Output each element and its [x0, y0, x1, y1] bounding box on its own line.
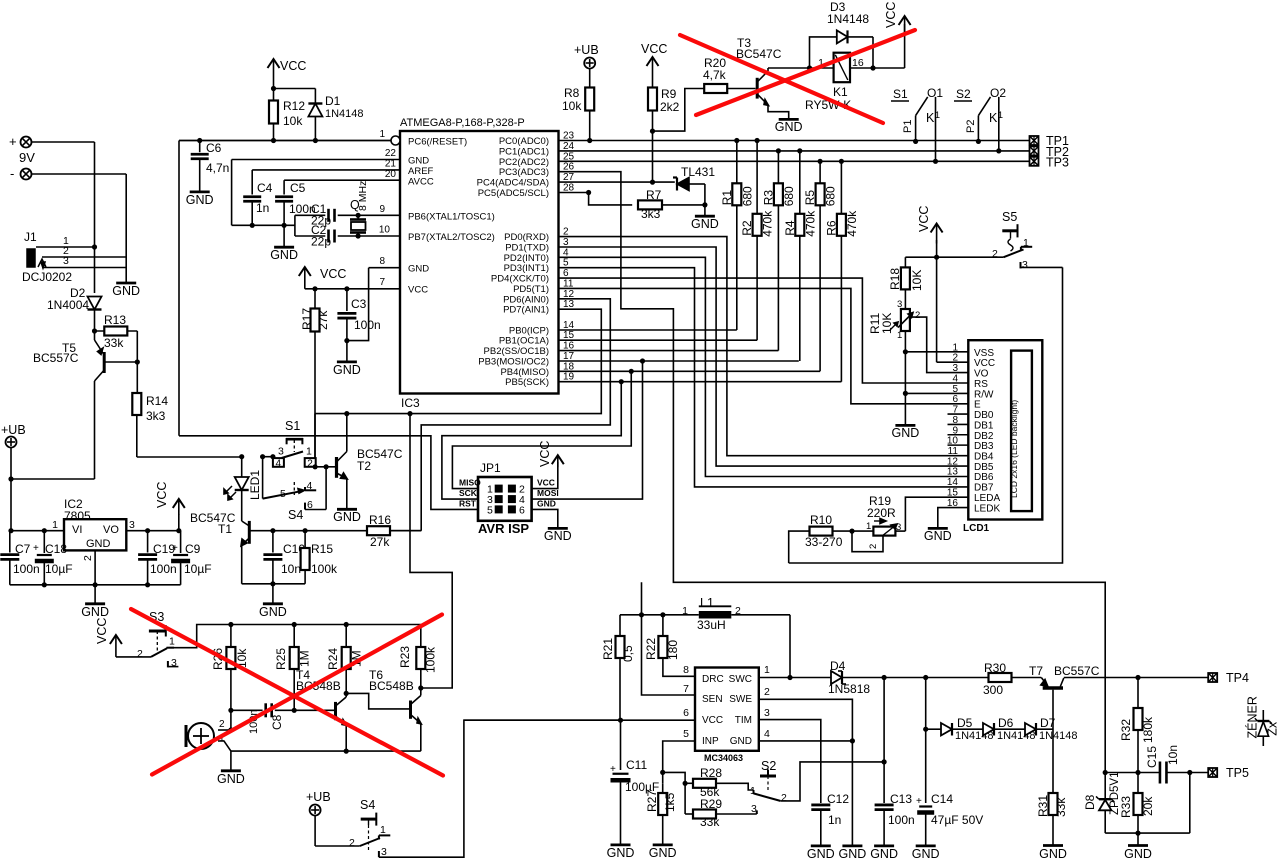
svg-text:1: 1 — [764, 664, 770, 676]
svg-text:GND: GND — [1124, 847, 1152, 861]
svg-text:MC34063: MC34063 — [704, 753, 743, 763]
svg-text:VCC: VCC — [917, 206, 931, 232]
wire IC3 pin 18 to R5 and MISO — [559, 370, 821, 372]
wire LCD LEDK to GND — [938, 508, 969, 529]
capacitor C11 100uF electrolytic — [620, 720, 622, 770]
svg-text:2k2: 2k2 — [660, 100, 680, 114]
svg-text:300: 300 — [983, 683, 1003, 697]
test point TP3 — [1030, 157, 1039, 166]
svg-text:1: 1 — [306, 446, 312, 458]
IC2 ground rail — [10, 584, 181, 586]
wire IC2 input — [11, 530, 64, 532]
svg-text:10k: 10k — [283, 114, 303, 128]
wire IC3 pin 26 net PC3 to TP5 node — [559, 172, 1106, 773]
svg-text:GND: GND — [81, 605, 109, 619]
svg-text:20k: 20k — [1141, 796, 1155, 816]
svg-text:S4: S4 — [288, 508, 303, 522]
svg-text:180: 180 — [666, 640, 680, 660]
svg-text:R31: R31 — [1036, 795, 1050, 817]
svg-text:33k: 33k — [700, 815, 720, 829]
ground symbol LEDK — [928, 527, 948, 530]
wire IC3 pin 14 to R1 — [559, 329, 737, 331]
svg-text:4,7n: 4,7n — [206, 161, 229, 175]
svg-text:27k: 27k — [370, 535, 390, 549]
svg-text:3: 3 — [897, 299, 902, 310]
svg-text:220R: 220R — [867, 506, 896, 520]
svg-text:TIM: TIM — [735, 715, 752, 726]
svg-text:3: 3 — [764, 707, 770, 719]
test point TP4 — [1208, 673, 1217, 682]
svg-text:D8: D8 — [1083, 794, 1097, 810]
svg-text:RST: RST — [459, 499, 477, 509]
svg-text:1n: 1n — [256, 201, 269, 215]
svg-text:GND: GND — [839, 847, 867, 861]
svg-text:R4: R4 — [783, 220, 797, 236]
svg-text:R5: R5 — [803, 190, 817, 206]
svg-text:VCC: VCC — [408, 285, 428, 296]
svg-text:470k: 470k — [761, 210, 775, 237]
ground symbol C5 — [274, 246, 294, 249]
svg-text:+: + — [33, 543, 39, 554]
resistor R21 0.5 — [619, 615, 621, 636]
svg-text:+UB: +UB — [574, 43, 599, 57]
wire IC3 pin 23 to TP1 line — [559, 140, 1030, 142]
svg-text:1N5818: 1N5818 — [828, 682, 870, 696]
svg-text:1N4148: 1N4148 — [325, 108, 364, 120]
svg-text:LCD 2x16 (LED backlight): LCD 2x16 (LED backlight) — [1009, 400, 1019, 498]
svg-text:C8: C8 — [270, 714, 284, 730]
svg-text:PD0(RXD): PD0(RXD) — [504, 232, 549, 243]
resistor R26 10k — [230, 625, 232, 731]
microphone MIC — [188, 723, 214, 749]
resistor R5 680 — [819, 161, 821, 371]
svg-text:SWC: SWC — [729, 674, 752, 685]
svg-text:470k: 470k — [845, 210, 859, 237]
svg-text:3: 3 — [1022, 259, 1028, 271]
mic amp ground rail — [231, 750, 421, 752]
resistor R22 180 — [662, 615, 664, 636]
svg-text:20: 20 — [385, 169, 397, 180]
wire emitter rail T1 C10 R15 — [242, 583, 305, 585]
wire RST to reset line — [179, 436, 478, 510]
svg-text:1: 1 — [935, 110, 940, 120]
svg-text:C14: C14 — [931, 792, 953, 806]
svg-text:D1: D1 — [325, 94, 341, 108]
wire IC3 pin 24 to TP2 line — [559, 150, 1030, 152]
svg-text:2: 2 — [219, 719, 225, 730]
svg-text:9: 9 — [379, 204, 385, 215]
svg-text:VCC: VCC — [280, 59, 306, 73]
svg-text:1: 1 — [952, 342, 958, 353]
ground symbol R31 — [1043, 844, 1063, 847]
svg-text:33uH: 33uH — [697, 618, 726, 632]
svg-text:PB6(XTAL1/TOSC1): PB6(XTAL1/TOSC1) — [408, 211, 495, 222]
svg-text:R23: R23 — [398, 646, 412, 668]
red cross mark over mic amp — [131, 609, 443, 776]
svg-text:TP5: TP5 — [1226, 766, 1249, 780]
wire IC3 pin 17 to R4 and MOSI — [559, 360, 799, 362]
wire LCD LEDA to R19 — [905, 497, 968, 531]
svg-text:10µF: 10µF — [184, 562, 212, 576]
ground symbol T3 emitter — [779, 118, 799, 121]
svg-text:3: 3 — [278, 446, 284, 458]
svg-text:K: K — [989, 111, 998, 125]
wire S2 pin2 to C13 node — [780, 762, 884, 801]
svg-text:100n: 100n — [150, 562, 177, 576]
svg-text:C11: C11 — [626, 758, 647, 772]
svg-text:L1: L1 — [700, 596, 714, 610]
svg-text:GND: GND — [86, 538, 111, 550]
ground symbol under R11 — [895, 424, 915, 427]
svg-text:GND: GND — [270, 248, 298, 262]
wire R9 node to R20 — [653, 89, 705, 132]
wire TP5 line — [1105, 772, 1160, 774]
svg-text:RS: RS — [974, 379, 988, 390]
svg-text:1: 1 — [169, 636, 175, 648]
svg-text:SCK: SCK — [459, 488, 478, 498]
svg-text:R15: R15 — [311, 542, 333, 556]
svg-text:DB0: DB0 — [974, 410, 994, 421]
wire MC34063 INP pin5 — [663, 741, 695, 783]
svg-text:100n: 100n — [13, 562, 40, 576]
svg-text:22p: 22p — [311, 235, 331, 249]
svg-text:GND: GND — [186, 193, 214, 207]
svg-text:GND: GND — [775, 120, 803, 134]
wire IC3 pin 19 to R6 and SCK — [559, 381, 842, 383]
svg-text:470k: 470k — [803, 210, 817, 237]
svg-text:R10: R10 — [810, 513, 832, 527]
wire L1 line — [620, 614, 699, 616]
svg-text:PC6(/RESET): PC6(/RESET) — [408, 137, 467, 148]
svg-text:2: 2 — [137, 648, 143, 660]
wire MC34063 SWC pin1 output line — [759, 677, 831, 679]
svg-text:5: 5 — [487, 504, 493, 516]
svg-text:680: 680 — [740, 186, 754, 206]
svg-text:PB7(XTAL2/TOSC2): PB7(XTAL2/TOSC2) — [408, 232, 495, 243]
svg-text:JP1: JP1 — [480, 461, 501, 475]
ground rail under C4 C5 — [232, 224, 295, 226]
svg-text:3: 3 — [63, 255, 69, 267]
svg-text:180k: 180k — [1141, 716, 1155, 743]
svg-text:C12: C12 — [827, 792, 849, 806]
svg-text:R32: R32 — [1119, 719, 1133, 741]
svg-text:S4: S4 — [360, 798, 375, 812]
wire SCK to IC3 pin19 — [442, 382, 621, 499]
svg-text:PB1(OC1A): PB1(OC1A) — [499, 336, 549, 347]
wire IC3 pin 27 to TL431 — [559, 181, 675, 183]
relay K1 RY5W-K coil — [768, 67, 834, 69]
svg-text:DB2: DB2 — [974, 431, 994, 442]
svg-text:VCC: VCC — [320, 267, 346, 281]
svg-text:8: 8 — [379, 256, 385, 267]
svg-text:2: 2 — [349, 837, 355, 849]
svg-text:R33: R33 — [1119, 796, 1133, 818]
svg-text:GND: GND — [333, 510, 361, 524]
ground symbol C3 — [337, 360, 357, 363]
LCD module LCD1 box — [968, 340, 1042, 519]
svg-text:R27: R27 — [645, 790, 659, 812]
svg-text:R1: R1 — [720, 190, 734, 206]
wire S4 pin3 to MC34063 VCC line — [379, 720, 621, 857]
wire MOSI to IC3 pin17 — [532, 361, 643, 499]
ground symbol pin4 drop — [842, 845, 862, 848]
resistor R1 680 — [736, 141, 738, 331]
wire MC34063 GND pin4 — [759, 740, 853, 742]
wire R11 bottom to VSS R/W GND — [904, 331, 906, 425]
svg-text:BC557C: BC557C — [1054, 664, 1100, 678]
svg-text:100n: 100n — [888, 813, 915, 827]
svg-text:10k: 10k — [562, 99, 582, 113]
svg-text:GND: GND — [259, 605, 287, 619]
svg-text:ZÉNER: ZÉNER — [1245, 696, 1260, 738]
svg-text:680: 680 — [782, 186, 796, 206]
svg-text:VCC: VCC — [702, 715, 723, 726]
wire MC34063 SWE pin2 — [759, 699, 853, 846]
svg-text:K: K — [926, 111, 935, 125]
resistor R2 470k — [756, 141, 758, 341]
wire vertical +9V rail down to J1 pin1 and D2 — [94, 142, 96, 293]
svg-text:10µF: 10µF — [45, 562, 73, 576]
svg-text:10: 10 — [379, 225, 391, 236]
ground symbol C14 — [916, 845, 936, 848]
svg-text:PB4(MISO): PB4(MISO) — [500, 367, 549, 378]
svg-text:100k: 100k — [424, 646, 438, 673]
svg-text:IC3: IC3 — [401, 396, 420, 410]
svg-text:1k5: 1k5 — [663, 792, 677, 812]
svg-text:GND: GND — [544, 529, 572, 543]
bottom node wire D8 R33 to C15 — [1105, 832, 1190, 834]
svg-text:GND: GND — [607, 846, 635, 860]
svg-text:INP: INP — [702, 736, 719, 747]
test point TP1 — [1030, 136, 1039, 145]
resistor R18 10K — [904, 257, 906, 267]
ground symbol C6 — [190, 190, 210, 193]
svg-text:1: 1 — [897, 330, 902, 341]
wire D2 to R13 node — [94, 310, 96, 331]
ground symbol under C10 — [272, 584, 274, 604]
svg-text:GND: GND — [1039, 847, 1067, 861]
svg-text:DRC: DRC — [702, 674, 724, 685]
svg-text:S1: S1 — [893, 87, 908, 101]
ground symbol for battery minus — [116, 282, 136, 285]
red cross mark over T3 relay section — [680, 35, 883, 123]
svg-text:+: + — [9, 134, 17, 149]
svg-text:7: 7 — [379, 277, 385, 288]
svg-text:DB5: DB5 — [974, 462, 994, 473]
wire IC3 pin 6 to LCD RS — [559, 278, 969, 383]
svg-text:ATMEGA8-P,168-P,328-P: ATMEGA8-P,168-P,328-P — [400, 117, 525, 129]
svg-text:GND: GND — [807, 847, 835, 861]
svg-text:DB7: DB7 — [974, 483, 994, 494]
svg-text:3: 3 — [952, 363, 958, 374]
wire - terminal to GND column — [32, 173, 127, 175]
wire T6 collector output — [410, 414, 452, 688]
svg-text:T2: T2 — [357, 459, 371, 473]
wire C8 to T4 base — [294, 709, 334, 711]
svg-text:1: 1 — [52, 519, 58, 531]
svg-text:MOSI: MOSI — [537, 488, 559, 498]
svg-text:4,7k: 4,7k — [703, 68, 727, 82]
R19 wiper pin 2 wire — [852, 531, 883, 552]
wire IC2 output line — [126, 530, 180, 532]
svg-text:GND: GND — [691, 217, 719, 231]
svg-text:J1: J1 — [24, 230, 37, 244]
svg-text:LEDA: LEDA — [974, 493, 1000, 504]
wire R14 bottom to LED/S1 row — [136, 415, 138, 457]
wire IC3 pin 5 to LCD DB7 — [559, 268, 969, 487]
svg-text:DB3: DB3 — [974, 441, 994, 452]
connector J1 jack symbol — [27, 249, 35, 267]
svg-text:100n: 100n — [354, 318, 381, 332]
svg-text:22: 22 — [385, 148, 397, 159]
resistor R3 680 — [777, 151, 779, 351]
LED LED1 — [239, 454, 244, 459]
svg-text:R18: R18 — [888, 268, 902, 290]
resistor R8 10k — [589, 69, 591, 142]
wire IC3 pin 4 to LCD DB6 — [559, 257, 969, 476]
svg-text:6: 6 — [519, 504, 525, 516]
svg-text:D6: D6 — [998, 716, 1014, 730]
JP1 pin pads — [495, 485, 502, 492]
svg-text:-: - — [10, 166, 14, 181]
svg-text:10K: 10K — [880, 313, 894, 334]
svg-text:10n: 10n — [281, 562, 301, 576]
svg-text:PD5(T1): PD5(T1) — [513, 284, 549, 295]
svg-text:27k: 27k — [316, 310, 330, 330]
svg-text:GND: GND — [112, 284, 140, 298]
svg-text:11: 11 — [948, 446, 959, 457]
svg-text:SWE: SWE — [729, 694, 752, 705]
svg-text:VCC: VCC — [155, 482, 169, 508]
svg-text:3k3: 3k3 — [641, 207, 661, 221]
svg-text:1n: 1n — [828, 813, 841, 827]
wire SEN column — [642, 582, 696, 695]
svg-text:7: 7 — [683, 683, 689, 695]
svg-text:VCC: VCC — [95, 618, 109, 644]
svg-text:R13: R13 — [104, 313, 126, 327]
capacitor C13 100n — [883, 678, 885, 804]
svg-text:14: 14 — [947, 477, 959, 488]
wire S4 pin6 to T2 base node — [325, 467, 327, 510]
wire R22 to DRC — [663, 658, 695, 676]
svg-text:C3: C3 — [351, 297, 367, 311]
svg-text:E: E — [974, 400, 981, 411]
svg-text:C4: C4 — [257, 181, 273, 195]
wire S5 pin3 down right frame — [789, 267, 1063, 563]
resistor R4 470k — [799, 151, 801, 361]
svg-text:GND: GND — [408, 156, 429, 167]
svg-text:6: 6 — [683, 707, 689, 719]
resistor R27 1k5 — [662, 783, 664, 793]
svg-text:33k: 33k — [1054, 797, 1068, 817]
wire T1 base line to R15 R16 — [273, 530, 421, 532]
wire MC34063 TIM pin3 to C12 — [759, 720, 821, 803]
svg-text:VCC: VCC — [974, 358, 995, 369]
wire IC3 pin 15 to R2 — [559, 339, 758, 341]
capacitor C14 47uF 50V electrolytic — [925, 678, 927, 804]
svg-text:AVCC: AVCC — [408, 176, 434, 187]
svg-text:TL431: TL431 — [681, 165, 715, 179]
svg-text:T1: T1 — [218, 522, 232, 536]
svg-text:VO: VO — [103, 524, 119, 536]
svg-text:1: 1 — [380, 824, 386, 836]
svg-text:4: 4 — [276, 458, 282, 469]
svg-text:R9: R9 — [661, 87, 677, 101]
svg-text:3k3: 3k3 — [146, 409, 166, 423]
ground symbol C11 — [611, 844, 631, 847]
IC MC34063 box — [695, 668, 759, 751]
ground symbol R33 node — [1137, 833, 1139, 845]
svg-text:1: 1 — [998, 110, 1003, 120]
svg-text:PC1(ADC1): PC1(ADC1) — [499, 146, 549, 157]
svg-text:GND: GND — [333, 363, 361, 377]
svg-text:S1: S1 — [285, 419, 300, 433]
wire S1 left contacts to R14 line — [263, 456, 273, 458]
svg-text:GND: GND — [649, 846, 677, 860]
wire IC3 pin 12 to R16 net — [421, 299, 610, 531]
svg-text:BC557C: BC557C — [33, 351, 79, 365]
svg-text:2: 2 — [992, 248, 998, 260]
wire IC3 pin 25 to TP3 line — [559, 160, 1030, 162]
svg-text:T7: T7 — [1029, 664, 1043, 678]
svg-text:47µF 50V: 47µF 50V — [931, 813, 983, 827]
ground symbol C13 — [874, 845, 894, 848]
svg-text:PD7(AIN1): PD7(AIN1) — [503, 305, 549, 316]
svg-text:VCC: VCC — [537, 478, 555, 488]
diode D5 1N4148 — [926, 728, 941, 730]
wire reset rail — [179, 140, 391, 142]
resistor R6 470k — [840, 161, 842, 381]
wire S3 pin1 to mic amp rail — [169, 625, 421, 648]
svg-text:R25: R25 — [274, 648, 288, 670]
resistor R33 20k — [1134, 793, 1143, 815]
svg-text:+: + — [172, 543, 178, 554]
wire IC3 pin 3 to LCD DB5 — [559, 247, 969, 466]
svg-text:GND: GND — [730, 736, 752, 747]
svg-text:LCD1: LCD1 — [963, 523, 990, 534]
svg-text:GND: GND — [924, 529, 952, 543]
svg-text:PC4(ADC4/SDA): PC4(ADC4/SDA) — [477, 178, 549, 189]
ground symbol IC2 — [85, 602, 105, 605]
svg-text:+: + — [916, 796, 922, 807]
wire reset vertical to S1 line — [178, 141, 180, 436]
svg-text:PD3(INT1): PD3(INT1) — [504, 263, 549, 274]
svg-text:33-270: 33-270 — [805, 535, 843, 549]
svg-text:TP3: TP3 — [1046, 156, 1069, 170]
svg-text:GND: GND — [217, 772, 245, 786]
svg-text:BC548B: BC548B — [369, 679, 414, 693]
svg-text:VCC: VCC — [884, 2, 898, 28]
svg-text:D5: D5 — [957, 716, 973, 730]
svg-text:GND: GND — [912, 847, 940, 861]
wire IC3 pin 13 to S1 net — [315, 309, 601, 413]
svg-text:6: 6 — [952, 394, 958, 405]
wire LCD R/W — [905, 392, 968, 394]
svg-text:DCJ0202: DCJ0202 — [22, 270, 72, 284]
svg-text:DB6: DB6 — [974, 472, 994, 483]
wire MC34063 VCC pin6 — [464, 719, 695, 721]
svg-text:2: 2 — [915, 310, 920, 321]
svg-text:GND: GND — [537, 499, 556, 509]
svg-text:DB4: DB4 — [974, 452, 994, 463]
svg-text:1M: 1M — [298, 650, 312, 667]
svg-text:R3: R3 — [761, 190, 775, 206]
svg-text:MISO: MISO — [459, 478, 481, 488]
capacitor C8 100n — [231, 709, 263, 711]
test point TP2 — [1030, 146, 1039, 155]
test point TP5 — [1208, 768, 1217, 777]
svg-text:VO: VO — [974, 369, 989, 380]
